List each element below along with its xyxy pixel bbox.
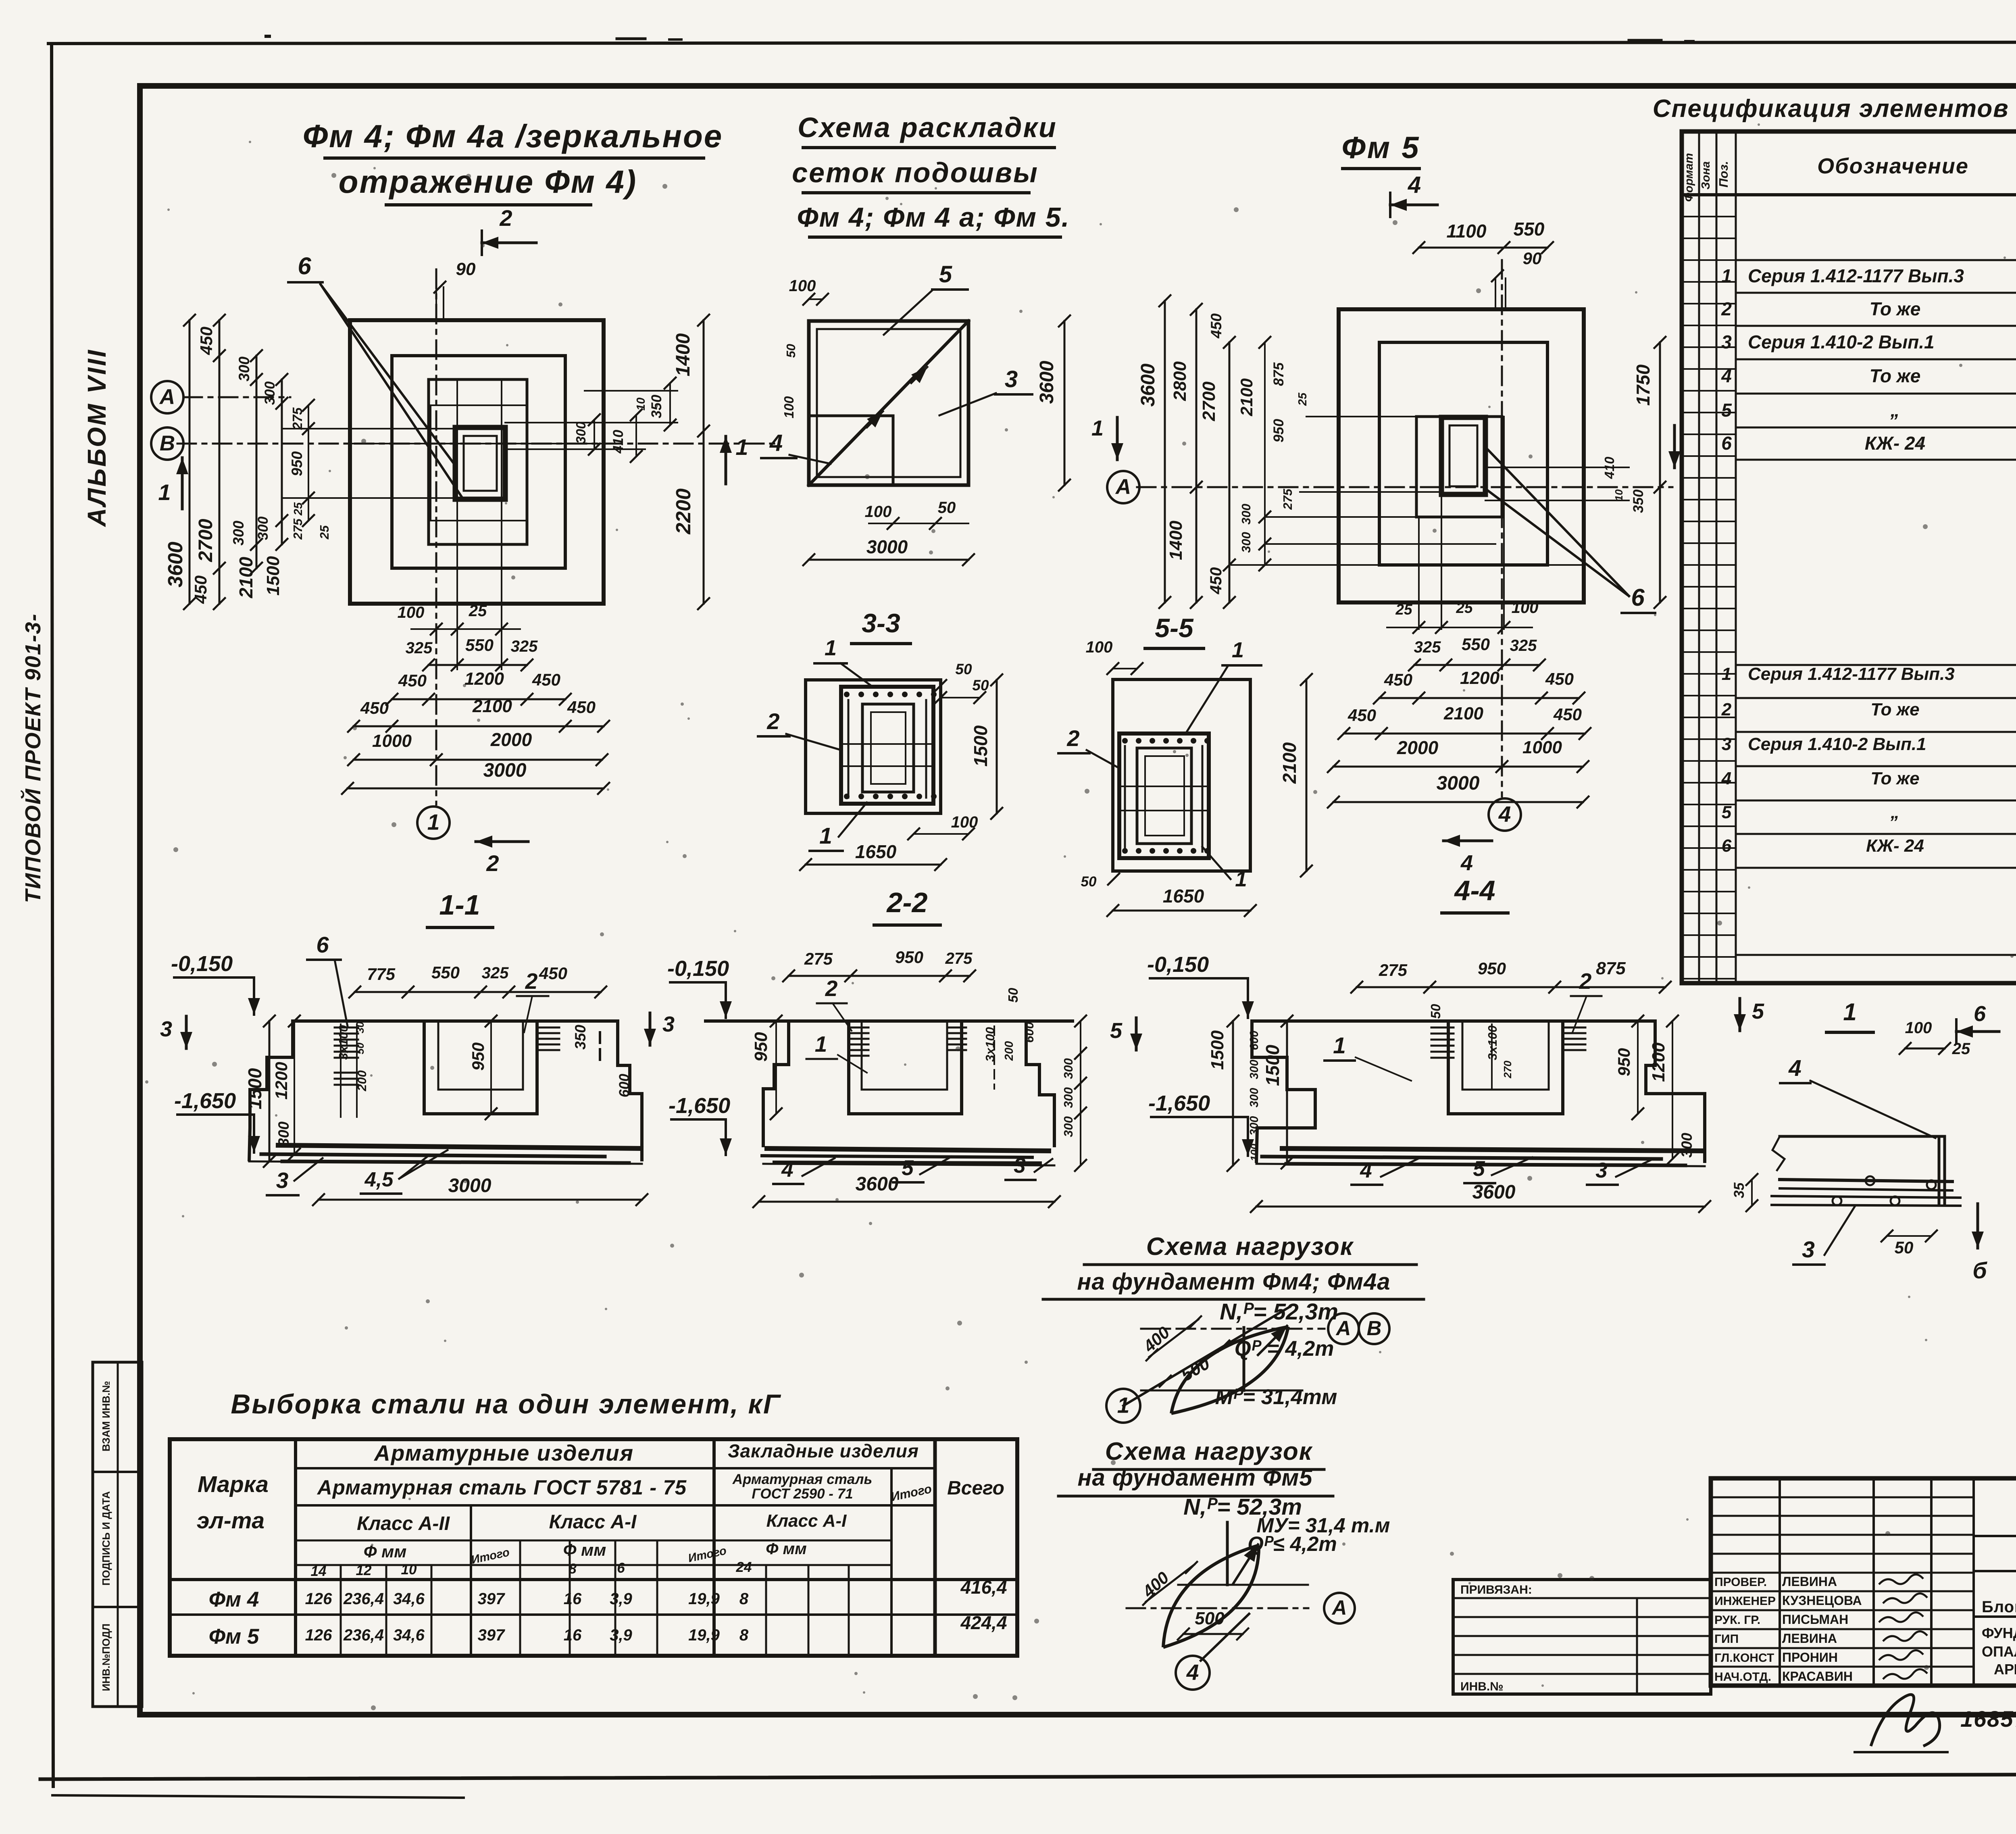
svg-text:25: 25 [292,502,305,516]
svg-text:2700: 2700 [1199,381,1219,421]
svg-text:450: 450 [360,698,389,717]
svg-text:300: 300 [573,421,588,444]
svg-text:236,4: 236,4 [343,1590,384,1608]
svg-text:100: 100 [865,503,892,521]
svg-text:Фм 5: Фм 5 [1342,131,1420,165]
svg-text:6: 6 [1721,433,1732,454]
svg-text:-0,150: -0,150 [667,957,729,981]
svg-text:3600: 3600 [1472,1182,1516,1203]
svg-text:30: 30 [354,1021,366,1033]
svg-text:2200: 2200 [672,488,695,534]
svg-text:14: 14 [311,1563,327,1579]
svg-text:Всего: Всего [947,1478,1004,1499]
svg-text:3: 3 [662,1012,675,1036]
svg-text:5: 5 [1473,1157,1485,1181]
svg-text:50: 50 [784,344,798,358]
svg-text:То же: То же [1870,700,1919,719]
svg-text:Спецификация элементов монолит: Спецификация элементов монолитной констр… [1653,95,2016,123]
svg-text:1: 1 [158,479,171,505]
svg-text:на фундамент Фм4; Фм4а: на фундамент Фм4; Фм4а [1077,1269,1390,1295]
svg-text:450: 450 [532,670,560,689]
svg-text:ИНВ.№ПОДЛ: ИНВ.№ПОДЛ [100,1624,112,1691]
svg-text:10: 10 [635,398,648,411]
svg-text:100: 100 [1905,1019,1932,1037]
svg-text:300: 300 [1061,1058,1075,1079]
svg-text:5: 5 [1110,1019,1123,1043]
svg-text:6: 6 [1974,1002,1986,1026]
svg-text:100: 100 [1086,638,1113,656]
svg-text:эл-та: эл-та [197,1508,264,1534]
svg-text:Ф мм: Ф мм [364,1542,407,1561]
svg-text:325: 325 [1510,637,1537,654]
svg-text:2: 2 [1066,725,1079,751]
svg-text:126: 126 [305,1590,332,1608]
svg-text:2: 2 [499,205,512,231]
svg-text:N,ᴾ= 52,3т: N,ᴾ= 52,3т [1220,1299,1338,1325]
svg-text:Поз.: Поз. [1716,161,1731,188]
svg-text:200: 200 [1003,1041,1016,1061]
svg-text:950: 950 [895,948,923,967]
svg-text:100: 100 [781,396,796,419]
svg-text:3000: 3000 [483,760,527,781]
svg-text:4: 4 [1721,365,1732,386]
svg-text:3х100: 3х100 [336,1025,350,1060]
svg-text:34,6: 34,6 [393,1626,425,1644]
svg-text:Ф мм: Ф мм [766,1540,807,1558]
svg-text:2100: 2100 [472,696,512,716]
svg-text:16: 16 [564,1626,582,1644]
svg-text:ВЗАМ ИНВ.№: ВЗАМ ИНВ.№ [100,1381,112,1452]
svg-text:КУЗНЕЦОВА: КУЗНЕЦОВА [1782,1593,1862,1608]
svg-text:25: 25 [1296,392,1309,406]
svg-text:ИНЖЕНЕР: ИНЖЕНЕР [1714,1594,1776,1608]
svg-text:775: 775 [367,965,396,984]
svg-text:А: А [1331,1596,1347,1619]
svg-text:6: 6 [1631,584,1645,611]
svg-text:1: 1 [1843,998,1856,1025]
svg-text:Фм 4; Фм 4 а; Фм 5.: Фм 4; Фм 4 а; Фм 5. [797,202,1070,233]
svg-text:Серия 1.412-1177 Вып.3: Серия 1.412-1177 Вып.3 [1748,265,1964,286]
svg-text:5: 5 [902,1156,914,1180]
svg-text:350: 350 [1631,489,1646,513]
svg-text:10: 10 [401,1562,417,1578]
svg-text:2: 2 [486,850,499,876]
svg-text:ГИП: ГИП [1714,1632,1739,1646]
svg-text:275: 275 [945,950,973,967]
svg-text:1500: 1500 [263,556,283,596]
svg-text:1500: 1500 [244,1068,265,1109]
svg-text:ЛЕВИНА: ЛЕВИНА [1782,1574,1837,1589]
svg-text:4: 4 [781,1158,793,1182]
svg-text:5: 5 [1752,999,1764,1023]
svg-text:950: 950 [289,451,305,476]
svg-text:Серия 1.410-2 Вып.1: Серия 1.410-2 Вып.1 [1748,734,1926,754]
svg-text:300: 300 [1061,1116,1075,1137]
svg-text:В: В [160,431,175,455]
svg-text:300: 300 [1239,504,1253,525]
svg-text:3000: 3000 [448,1175,492,1196]
svg-text:1650: 1650 [855,841,897,862]
svg-text:397: 397 [478,1626,505,1644]
svg-text:Фм 5: Фм 5 [209,1625,260,1649]
svg-text:Формат: Формат [1683,153,1695,202]
svg-text:450: 450 [1208,313,1225,339]
svg-text:100: 100 [1512,599,1539,617]
svg-text:2: 2 [825,976,838,1001]
svg-text:325: 325 [406,639,433,657]
svg-text:300: 300 [262,381,278,405]
svg-text:-1,650: -1,650 [174,1089,236,1113]
svg-text:1000: 1000 [1522,738,1562,757]
svg-text:25: 25 [469,602,487,620]
svg-text:600: 600 [1022,1022,1036,1043]
svg-text:отражение Фм 4): отражение Фм 4) [339,164,637,200]
svg-text:Марка: Марка [198,1471,269,1497]
svg-text:-0,150: -0,150 [171,952,233,976]
svg-text:300: 300 [1248,1060,1261,1079]
svg-text:2: 2 [525,969,538,994]
svg-text:2: 2 [1721,298,1732,319]
svg-text:19,9: 19,9 [688,1590,720,1608]
svg-text:КЖ- 24: КЖ- 24 [1865,433,1925,454]
svg-text:50: 50 [354,1042,366,1054]
svg-text:НАЧ.ОТД.: НАЧ.ОТД. [1714,1670,1771,1684]
svg-text:12: 12 [356,1563,372,1578]
svg-text:5: 5 [1721,400,1732,421]
svg-text:500: 500 [1195,1609,1225,1628]
svg-text:5-5: 5-5 [1155,613,1194,643]
svg-text:3600: 3600 [856,1173,899,1195]
svg-text:В: В [1367,1317,1382,1340]
svg-text:Ф мм: Ф мм [563,1540,606,1559]
svg-text:сеток подошвы: сеток подошвы [792,157,1039,188]
svg-text:Qᴾ≤ 4,2т: Qᴾ≤ 4,2т [1248,1532,1337,1555]
svg-text:50: 50 [972,677,989,694]
svg-text:3: 3 [1595,1159,1607,1182]
svg-text:2000: 2000 [490,729,532,750]
svg-text:КЖ- 24: КЖ- 24 [1866,836,1924,856]
svg-text:450: 450 [1384,670,1412,689]
svg-text:АЛЬБОМ VIII: АЛЬБОМ VIII [82,348,111,527]
svg-text:450: 450 [567,698,596,717]
svg-text:450: 450 [191,575,210,604]
svg-text:950: 950 [1478,959,1506,978]
svg-text:450: 450 [1207,567,1225,595]
svg-text:АРМИРОВАНИЕ.: АРМИРОВАНИЕ. [1994,1661,2016,1678]
svg-text:Класс А-II: Класс А-II [357,1513,450,1534]
svg-text:3: 3 [160,1017,172,1041]
svg-text:300: 300 [255,516,271,540]
svg-text:4: 4 [1460,851,1473,875]
svg-text:5: 5 [939,261,952,288]
svg-text:То же: То же [1870,365,1921,386]
svg-text:3600: 3600 [1036,361,1058,404]
svg-text:2100: 2100 [1443,704,1483,723]
svg-text:1200: 1200 [1649,1042,1668,1082]
svg-text:3: 3 [276,1168,289,1193]
svg-text:300: 300 [230,521,247,546]
svg-text:Класс А-I: Класс А-I [549,1511,637,1533]
svg-text:450: 450 [1545,669,1574,688]
svg-text:25: 25 [317,525,331,540]
svg-text:275: 275 [804,949,833,968]
svg-text:275: 275 [291,518,305,540]
svg-text:Qᴾ = 4,2т: Qᴾ = 4,2т [1235,1337,1334,1361]
svg-text:875: 875 [1596,959,1626,978]
svg-text:Схема нагрузок: Схема нагрузок [1146,1233,1354,1261]
svg-text:34,6: 34,6 [393,1590,425,1608]
svg-text:275: 275 [1281,488,1295,510]
svg-text:950: 950 [469,1042,487,1071]
svg-text:875: 875 [1271,362,1287,386]
svg-text:8: 8 [739,1626,749,1644]
svg-text:3: 3 [1005,366,1018,392]
svg-text:3: 3 [1722,734,1731,754]
svg-text:100: 100 [398,604,425,621]
svg-text:270: 270 [1502,1061,1514,1079]
svg-text:1200: 1200 [464,669,504,689]
svg-text:1: 1 [1721,265,1732,286]
svg-text:3600: 3600 [1137,363,1159,406]
svg-text:450: 450 [398,671,427,690]
svg-text:6: 6 [298,252,311,279]
svg-text:325: 325 [1414,638,1441,656]
svg-text:1: 1 [1232,638,1244,662]
svg-text:Арматурная сталь: Арматурная сталь [732,1471,873,1487]
svg-text:2800: 2800 [1170,361,1190,401]
svg-text:КРАСАВИН: КРАСАВИН [1782,1669,1853,1684]
svg-text:Фм 4; Фм 4а /зеркальное: Фм 4; Фм 4а /зеркальное [303,118,723,154]
svg-text:3,9: 3,9 [610,1590,632,1608]
svg-text:6: 6 [316,932,329,957]
svg-text:950: 950 [1614,1048,1633,1076]
svg-text:25: 25 [1456,600,1473,616]
svg-text:450: 450 [1347,706,1376,725]
svg-text:410: 410 [610,429,626,454]
svg-text:ЛЕВИНА: ЛЕВИНА [1782,1631,1837,1646]
svg-text:1200: 1200 [1460,668,1500,688]
svg-text:ГЛ.КОНСТ: ГЛ.КОНСТ [1714,1651,1774,1665]
svg-text:19,9: 19,9 [688,1626,720,1644]
svg-text:2100: 2100 [1279,742,1300,784]
svg-text:-1,650: -1,650 [1148,1091,1210,1115]
svg-text:1: 1 [735,434,748,460]
svg-text:Закладные изделия: Закладные изделия [728,1440,919,1461]
svg-text:ФУНДАМЕНТЫ ФМ 4; ФМ5.: ФУНДАМЕНТЫ ФМ 4; ФМ5. [1982,1625,2016,1641]
svg-text:на фундамент Фм5: на фундамент Фм5 [1077,1465,1312,1491]
svg-text:3: 3 [1802,1237,1815,1263]
svg-text:ТИПОВОЙ ПРОЕКТ 901-3-: ТИПОВОЙ ПРОЕКТ 901-3- [20,613,45,903]
svg-text:ОПАЛУБОЧНЫЕ ЧЕРТЕЖИ И: ОПАЛУБОЧНЫЕ ЧЕРТЕЖИ И [1982,1643,2016,1660]
svg-text:3000: 3000 [866,536,908,557]
svg-text:275: 275 [1379,961,1408,980]
svg-text:275: 275 [290,407,305,430]
svg-text:1-1: 1-1 [439,889,480,921]
svg-text:ПРОВЕР.: ПРОВЕР. [1714,1576,1767,1589]
svg-text:300: 300 [1679,1133,1695,1158]
svg-text:350: 350 [572,1025,589,1050]
svg-text:50: 50 [1428,1004,1443,1019]
svg-text:8: 8 [569,1561,577,1577]
svg-text:8: 8 [739,1590,749,1608]
svg-text:-1,650: -1,650 [669,1094,730,1118]
svg-text:1: 1 [427,810,440,835]
svg-text:300: 300 [1248,1116,1261,1136]
svg-text:1200: 1200 [272,1062,291,1099]
svg-text:35: 35 [1731,1182,1747,1198]
svg-text:16: 16 [564,1590,582,1608]
svg-text:16857- 01: 16857- 01 [1960,1706,2016,1732]
svg-text:600: 600 [616,1073,632,1097]
svg-text:10: 10 [1613,489,1625,501]
svg-text:1: 1 [1722,664,1731,684]
svg-text:1: 1 [1091,416,1104,440]
svg-text:То же: То же [1870,298,1921,319]
svg-text:1: 1 [1235,867,1247,891]
svg-text:100: 100 [789,277,816,295]
svg-text:25: 25 [1395,601,1413,618]
svg-text:1500: 1500 [1208,1030,1227,1070]
svg-text:450: 450 [197,327,216,355]
svg-text:550: 550 [465,636,494,654]
svg-text:4: 4 [769,430,783,456]
svg-text:550: 550 [431,963,460,982]
svg-text:300: 300 [275,1121,292,1146]
svg-text:Мᴾ= 31,4тм: Мᴾ= 31,4тм [1215,1385,1337,1409]
svg-text:90: 90 [456,259,476,279]
svg-text:126: 126 [305,1626,332,1644]
svg-text:Выборка стали на один элемент,: Выборка стали на один элемент, кГ [231,1389,781,1419]
svg-text:2100: 2100 [235,556,256,598]
svg-text:А: А [1115,475,1131,499]
svg-text:Серия 1.410-2 Вып.1: Серия 1.410-2 Вып.1 [1748,331,1935,352]
svg-text:Схема раскладки: Схема раскладки [798,112,1057,143]
svg-text:300: 300 [236,356,252,381]
svg-text:-0,150: -0,150 [1147,952,1209,977]
svg-text:б: б [1972,1258,1987,1284]
svg-text:100: 100 [1248,1144,1260,1161]
svg-text:Арматурная сталь ГОСТ 5781 - 7: Арматурная сталь ГОСТ 5781 - 75 [317,1476,687,1499]
svg-text:1650: 1650 [1163,886,1204,907]
svg-text:397: 397 [478,1590,505,1608]
svg-text:Арматурные изделия: Арматурные изделия [373,1440,634,1465]
svg-text:А: А [1335,1317,1351,1340]
svg-text:50: 50 [1081,874,1097,890]
svg-text:50: 50 [1895,1238,1914,1257]
svg-text:2700: 2700 [195,519,217,562]
svg-text:ПИСЬМАН: ПИСЬМАН [1782,1612,1848,1627]
svg-text:Схема нагрузок: Схема нагрузок [1105,1438,1313,1465]
svg-text:300: 300 [1248,1088,1261,1107]
svg-text:2000: 2000 [1397,737,1439,758]
svg-text:3000: 3000 [1437,773,1480,794]
svg-text:325: 325 [511,638,538,655]
svg-text:Фм 4: Фм 4 [209,1588,259,1611]
svg-text:3,9: 3,9 [610,1626,632,1644]
svg-text:1: 1 [819,823,832,849]
svg-text:4-4: 4-4 [1454,875,1495,906]
svg-text:236,4: 236,4 [343,1626,384,1644]
svg-text:4: 4 [1788,1055,1801,1081]
svg-text:5: 5 [1722,802,1732,822]
svg-text:424,4: 424,4 [960,1612,1007,1633]
svg-text:600: 600 [1248,1031,1261,1050]
svg-text:410: 410 [1602,456,1617,479]
svg-text:6: 6 [617,1560,625,1576]
svg-text:6: 6 [1722,836,1732,856]
svg-text:4: 4 [1721,769,1731,788]
svg-text:300: 300 [1239,532,1253,553]
svg-text:1: 1 [1117,1393,1130,1418]
svg-text:2: 2 [1579,969,1592,994]
svg-text:2-2: 2-2 [886,887,927,918]
svg-text:Обозначение: Обозначение [1817,154,1969,178]
svg-text:РУК. ГР.: РУК. ГР. [1714,1613,1760,1627]
svg-text:1750: 1750 [1633,364,1654,406]
svg-text:А: А [159,385,175,409]
svg-text:550: 550 [1462,635,1490,654]
svg-text:24: 24 [736,1559,752,1575]
svg-text:1100: 1100 [1447,221,1487,242]
svg-text:3600: 3600 [164,542,187,587]
svg-text:2: 2 [766,709,779,734]
svg-text:416,4: 416,4 [960,1577,1007,1598]
svg-text:1500: 1500 [1262,1044,1283,1086]
svg-text:1: 1 [825,636,837,660]
svg-text:3: 3 [1014,1154,1025,1178]
svg-text:ПОДПИСЬ И ДАТА: ПОДПИСЬ И ДАТА [100,1491,112,1586]
svg-text:1: 1 [815,1032,827,1057]
svg-text:Класс А-I: Класс А-I [766,1511,847,1531]
svg-text:550: 550 [1514,219,1545,240]
svg-text:3-3: 3-3 [862,608,900,638]
svg-text:1000: 1000 [372,731,412,751]
svg-text:2: 2 [1721,700,1732,719]
svg-text:50: 50 [1006,988,1020,1002]
svg-text:Блок микрофильтров.: Блок микрофильтров. [1982,1598,2016,1616]
svg-text:4: 4 [1408,172,1421,198]
svg-text:4: 4 [1498,802,1511,827]
svg-text:50: 50 [955,661,972,677]
svg-text:4: 4 [1186,1660,1199,1685]
svg-text:3: 3 [1721,331,1732,352]
svg-text:450: 450 [1553,705,1582,724]
svg-text:ПРОНИН: ПРОНИН [1782,1650,1838,1665]
svg-text:950: 950 [1271,419,1287,442]
svg-text:2100: 2100 [1237,378,1256,416]
svg-text:325: 325 [482,964,509,982]
svg-text:4,5: 4,5 [364,1168,394,1191]
svg-text:„: „ [1890,400,1900,421]
svg-text:„: „ [1890,802,1899,822]
svg-text:4: 4 [1360,1159,1372,1182]
svg-text:ПРИВЯЗАН:: ПРИВЯЗАН: [1460,1583,1532,1596]
svg-text:ИНВ.№: ИНВ.№ [1460,1680,1504,1693]
svg-text:ГОСТ 2590 - 71: ГОСТ 2590 - 71 [752,1486,853,1502]
svg-text:1500: 1500 [970,725,991,767]
svg-text:450: 450 [539,964,567,983]
svg-text:Серия 1.412-1177 Вып.3: Серия 1.412-1177 Вып.3 [1748,664,1955,684]
svg-text:950: 950 [751,1032,771,1062]
svg-text:1400: 1400 [673,333,694,376]
svg-text:То же: То же [1870,769,1919,788]
svg-text:1400: 1400 [1166,521,1186,560]
svg-text:Зона: Зона [1699,161,1712,190]
svg-text:50: 50 [938,499,956,517]
svg-text:25: 25 [1952,1040,1970,1058]
svg-text:90: 90 [1523,249,1542,268]
svg-text:300: 300 [1061,1087,1075,1108]
